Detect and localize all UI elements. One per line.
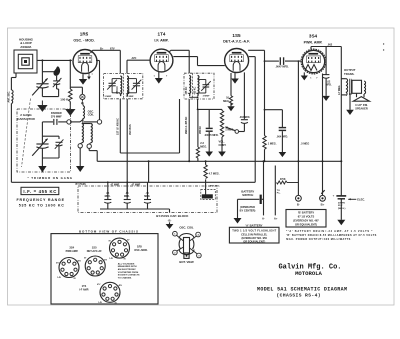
svg-text:MFD.: MFD. [105,195,111,198]
inductor IF1 primary [120,76,122,96]
svg-text:OR EQUIVALENT): OR EQUIVALENT) [295,223,317,227]
inductor osc coil top winding [83,106,85,119]
svg-text:1S5: 1S5 [232,33,241,38]
svg-text:DET-AVC-AF: DET-AVC-AF [87,250,102,253]
svg-text:MODEL 5A1 SCHEMATIC DIAGRAM: MODEL 5A1 SCHEMATIC DIAGRAM [257,286,347,292]
tube 3S4 [301,49,326,74]
transformer output [341,68,365,95]
label tube 3S4 [304,34,323,45]
ground gang2 [38,166,46,172]
capacitor padder 370MMF [51,111,62,125]
svg-text:1R5: 1R5 [137,244,142,248]
socket 3S4 [56,246,82,280]
wire IF1 sec to 1T4 grid [127,57,150,73]
svg-text:I-F AMP.: I-F AMP. [79,288,89,291]
svg-text:4.7 MEG.: 4.7 MEG. [209,172,220,176]
svg-text:BY CENTER): BY CENTER) [240,208,256,212]
svg-text:3S4: 3S4 [309,34,318,39]
wire branch to padder teardrop [42,71,54,73]
title model 5A1 [257,286,347,298]
switch contact to osc coil [82,100,84,106]
label IF2 values [185,86,196,94]
wire antenna to grid [37,59,72,61]
svg-text:CELLS IN PARALLEL: CELLS IN PARALLEL [241,232,268,236]
svg-text:2ND I.F. 455 KC: 2ND I.F. 455 KC [185,116,188,134]
svg-text:B+: B+ [321,202,325,206]
svg-text:FREQUENCY RANGE: FREQUENCY RANGE [17,198,65,202]
svg-text:CONT.: CONT. [219,143,227,147]
node B minus takeoff [298,60,300,195]
ground below 1T4 [154,72,169,84]
svg-text:TO: TO [277,190,280,192]
svg-text:DET.-A.V.C.-A.F.: DET.-A.V.C.-A.F. [223,40,250,44]
node circled 4 [97,120,101,124]
speaker [353,93,369,110]
inductor osc coil twin windings [82,118,93,142]
capacitor IF2 trimmer [198,80,211,98]
resistor 4.7 MEG [204,160,221,194]
svg-text:.002: .002 [327,42,333,46]
label tube 1S5 [223,33,250,44]
wire loop return left side [11,73,16,182]
resistor 10 MEG [223,73,235,111]
svg-text:1S5: 1S5 [92,246,97,250]
wire osc grid branch [70,87,82,94]
svg-text:TWO 1 1/2 VOLT FLASHLIGHT: TWO 1 1/2 VOLT FLASHLIGHT [232,229,276,233]
svg-text:VOLTMETER FROM: VOLTMETER FROM [118,272,139,274]
svg-text:PWR. AMP.: PWR. AMP. [304,40,323,44]
box IF frequency [21,187,59,194]
label 2 gang capacitor [17,113,35,121]
ground below 1S5 [231,72,239,83]
capacitor coupling .0047 MFD [264,57,302,68]
capacitor block ant section [201,190,216,200]
svg-text:.0047 MFD.: .0047 MFD. [275,65,289,69]
transformer IF1 enclosure [104,74,143,99]
svg-text:A-: A- [262,216,265,220]
label tube 1T4 [154,32,168,43]
svg-text:455 KC: 455 KC [199,126,202,134]
ground below 1R5 filament [79,74,87,85]
svg-text:OSC. COIL: OSC. COIL [179,226,194,230]
svg-text:455 KC: 455 KC [185,86,188,94]
box B battery [286,210,326,228]
svg-text:-B-: -B- [168,219,172,223]
marks colon [383,43,384,44]
node ant junction [41,59,43,61]
capacitor bypass 3 [144,182,151,209]
svg-text:1T4: 1T4 [82,284,87,288]
capacitor teardrop padder [53,66,60,75]
node circled X [80,94,85,99]
svg-text:CAPACITOR: CAPACITOR [17,117,35,121]
svg-text:455 KC: 455 KC [116,86,119,94]
ground switch [234,199,242,223]
svg-text:BOTTOM VIEW OF CHASSIS: BOTTOM VIEW OF CHASSIS [79,229,138,233]
mechanical link dashed [22,99,31,168]
ground osc coil [76,148,84,172]
wire plate supply down [338,47,342,196]
svg-text:OSC. - MOD.: OSC. - MOD. [73,39,94,43]
svg-text:47 MMF: 47 MMF [111,184,120,187]
svg-text:ALL VOLTAGES: ALL VOLTAGES [118,262,135,265]
wire down to gang cap 1 [41,60,43,83]
svg-text:3 MMF: 3 MMF [105,96,112,98]
svg-text:3 MMF: 3 MMF [203,95,210,97]
svg-text:455 KC: 455 KC [193,86,196,94]
svg-text:I.F. AMP.: I.F. AMP. [154,39,168,43]
wire IF2 sec return [189,96,198,147]
svg-text:ANT. SEC.: ANT. SEC. [210,184,221,187]
svg-text:MOTOROLA: MOTOROLA [295,270,322,277]
svg-text:BOT. VIEW: BOT. VIEW [179,260,194,264]
wire A plus [274,166,281,221]
inductor IF1 secondary [127,76,129,96]
capacitor .004 MFD tone [264,109,289,157]
svg-text:455 KC: 455 KC [127,86,130,94]
tube 1T4 [150,49,173,72]
svg-text:MFD.: MFD. [144,195,150,198]
potentiometer volume 1 MEG [218,109,238,156]
label frequency range [17,198,65,207]
wire 1R5 plate to IF1 [91,47,121,74]
tube 1R5 [73,50,97,74]
svg-text:10 MMF: 10 MMF [126,96,135,98]
wire IF2 pri return [188,99,190,161]
gang capacitor enclosure [17,109,71,172]
svg-text:AVC BUS: AVC BUS [129,124,132,135]
label IF1 values [105,86,135,98]
wire 3S4 filament to B plus [322,74,324,196]
svg-text:.004MFD.: .004MFD. [239,116,250,119]
box bottom view of chassis [51,229,158,304]
svg-text:B-: B- [297,202,300,206]
svg-text:MAX. POWER OUTPUT=300 MILLIWAT: MAX. POWER OUTPUT=300 MILLIWATTS [286,238,350,241]
svg-text:* TRIMMER ON GANG: * TRIMMER ON GANG [28,176,73,180]
wire gang1 bottom [41,88,43,97]
note all voltages [118,262,140,279]
svg-text:'B' BATTERY DRAIN=8.55 MILLIAM: 'B' BATTERY DRAIN=8.55 MILLIAMPERES AT 6… [286,234,376,237]
capacitor electrolytic [333,193,366,209]
svg-text:BY PASS: BY PASS [76,183,87,186]
svg-text:3S4: 3S4 [69,246,74,250]
wire 1T4 plate to IF2 [169,50,189,73]
terminal B minus [296,195,302,206]
capacitor IF1 trimmer pri [107,79,120,93]
socket 1S5 [84,246,108,277]
capacitor .02 MFD [322,47,332,102]
svg-text:(EVEREADY NO. 950: (EVEREADY NO. 950 [241,236,267,240]
resistor 100K [60,60,74,115]
svg-text:VOL.: VOL. [219,140,225,144]
wire IF2 sec to 1S5 diode [198,65,225,67]
socket 1T4 [79,282,122,304]
svg-text:1ST I.F. 455 KC: 1ST I.F. 455 KC [116,118,119,135]
capacitor bypass 1 [104,182,111,209]
svg-text:*'A' BATTERY DRAIN=.24 AMP. AT: *'A' BATTERY DRAIN=.24 AMP. AT 1.5 VOLTS… [286,230,372,233]
svg-text:COIL: COIL [88,113,95,117]
svg-text:MEASURED WITH: MEASURED WITH [118,265,137,268]
svg-text:ASSEM.: ASSEM. [20,45,32,49]
resistor 1 MEG AF [263,136,277,163]
svg-text:1 MEG: 1 MEG [225,127,233,131]
ground below 3S4 [301,72,319,80]
svg-text:MFD.: MFD. [124,195,130,198]
by-pass capacitor block enclosure [78,186,217,213]
wire padder row [42,120,83,122]
socket 1R5 [109,238,149,260]
svg-text:'B' BATTERY: 'B' BATTERY [298,211,315,215]
capacitor bypass 2 [124,182,131,209]
svg-text:67 1/2 VOLTS: 67 1/2 VOLTS [298,215,315,219]
ground output [346,93,354,115]
svg-text:.00025 MFD.: .00025 MFD. [204,134,219,137]
pin lead small arrow 1R5 [87,73,93,80]
svg-text:TRANS.: TRANS. [344,72,355,76]
title Galvin Mfg [278,263,341,277]
transformer IF2 enclosure [184,73,214,99]
ground bypass block [166,222,174,229]
label 1st IF vertical [116,118,132,135]
inductor IF2 primary [189,76,191,97]
resistor 470K [277,178,299,184]
label 2nd IF vertical [185,116,202,134]
wire bypass common [100,209,170,213]
svg-text:BY-PASS CAP. BLOCK: BY-PASS CAP. BLOCK [156,214,189,218]
svg-text:SPEAKER: SPEAKER [355,106,368,110]
tube 1S5 [225,49,249,73]
node circled 2 [87,144,91,148]
terminal B plus [320,190,326,206]
loop antenna housing [14,50,37,73]
svg-text:P.L.: P.L. [277,193,281,195]
ground gang1 [38,101,46,112]
svg-text:A+: A+ [274,216,278,220]
capacitor osc trimmer [42,136,63,158]
svg-text:TO CHASSIS.: TO CHASSIS. [118,276,132,279]
svg-text:47 MMF: 47 MMF [132,184,141,187]
capacitor .00025 MFD [204,109,219,156]
svg-text:SWITCH: SWITCH [242,193,253,197]
wire osc coil to bus [89,148,97,161]
svg-text:(CHASSIS RS-4): (CHASSIS RS-4) [277,293,321,299]
capacitor .004 MFD coupling to pot [239,72,251,131]
inductor IF2 secondary [198,76,200,97]
svg-text:4.7 MEG: 4.7 MEG [338,85,341,95]
node circled 1 [78,144,82,148]
osc coil bottom view [173,226,202,264]
wire osc grid feedback [84,61,100,122]
svg-text:OR EQUIVALENT): OR EQUIVALENT) [243,239,265,243]
switch battery [238,190,264,213]
svg-text:370 MMF: 370 MMF [51,114,62,118]
capacitor IF1 trimmer sec [127,79,141,93]
svg-text:67V: 67V [110,47,115,51]
wire AVC bus bottom [11,181,255,183]
svg-text:1 MEG.: 1 MEG. [268,142,277,146]
box A battery [229,223,279,243]
wire A minus [262,160,265,220]
label osc coil [88,109,95,116]
ground electrolytic [337,200,345,226]
label loop assembly [19,38,34,49]
svg-text:ELEC.: ELEC. [357,198,365,202]
capacitor gang section 2 [32,122,48,166]
wire diode load junction [197,109,222,111]
svg-text:100 K: 100 K [60,97,69,101]
wire 3S4 plate top [311,42,341,49]
note battery drain [286,230,376,241]
svg-text:SOCKET CONTACTS: SOCKET CONTACTS [118,274,140,277]
svg-text:(EVEREADY NO. 467: (EVEREADY NO. 467 [293,219,319,223]
svg-text:.5 MEG: .5 MEG [301,141,310,145]
capacitor trimmer under teardrop [53,78,62,97]
label tube 1R5 [73,32,94,43]
capacitor gang section 1 [32,78,48,95]
svg-text:1R5: 1R5 [80,32,89,37]
svg-text:B+: B+ [100,47,104,51]
inductor ant secondary [11,90,13,104]
resistor 2.2 MEG [196,141,207,161]
wire 1T4 screen [173,57,197,66]
wire IF1 B plus return [120,99,179,153]
wire main B bus [97,160,341,162]
wire 1S5 plate right [248,50,264,135]
svg-text:AVC: AVC [132,57,137,60]
svg-text:AN ELECTRONIC: AN ELECTRONIC [118,268,136,271]
svg-text:1T4: 1T4 [158,32,166,37]
svg-text:I.F. = 455 KC: I.F. = 455 KC [23,189,56,194]
svg-text:MEG.: MEG. [200,144,207,148]
svg-text:PWR.AMP.: PWR.AMP. [66,250,79,253]
svg-text:OSC.-MOD.: OSC.-MOD. [134,249,148,252]
svg-text:ANT. SEC.: ANT. SEC. [8,91,11,103]
wire 1S5 screen to AVC drop [249,57,255,183]
wire bus drop to bypass [148,160,150,182]
svg-text:MEG: MEG [223,99,229,103]
wire IF1 sec return [126,99,128,194]
svg-text:535 KC TO 1600 KC: 535 KC TO 1600 KC [19,204,64,208]
node circled 3 [67,120,71,124]
